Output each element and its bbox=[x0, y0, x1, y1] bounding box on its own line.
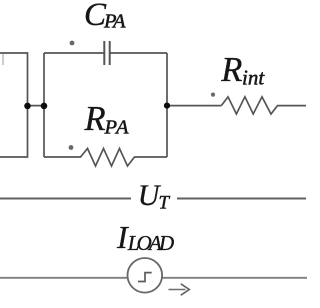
svg-text:R: R bbox=[220, 51, 242, 89]
svg-text:R: R bbox=[84, 100, 106, 138]
svg-text:T: T bbox=[159, 192, 171, 213]
svg-text:LOAD: LOAD bbox=[127, 231, 175, 255]
svg-text:PA: PA bbox=[103, 10, 126, 32]
svg-text:int: int bbox=[242, 66, 265, 90]
svg-text:PA: PA bbox=[104, 117, 129, 139]
